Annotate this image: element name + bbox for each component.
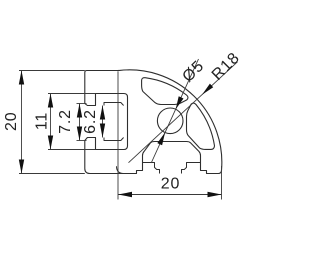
extension line arc right tangent bbox=[221, 166, 223, 200]
R18 arrow pointing down-left, tip at (202,94.7) bbox=[202, 84, 213, 95]
dim line 6.2 bbox=[102, 106, 104, 138]
svg-text:20: 20 bbox=[3, 112, 20, 131]
Ø5 lower arrow pointing up-right into hole, tip at (165.1,132.4) bbox=[157, 132, 165, 145]
svg-text:Ø5: Ø5 bbox=[179, 57, 207, 85]
lower internal pocket bbox=[187, 103, 215, 149]
Ø5 upper arrow pointing down-left into hole, tip at (175.7,109.2) bbox=[176, 96, 184, 109]
left slot ridge bottom bbox=[104, 138, 124, 141]
svg-text:R18: R18 bbox=[209, 49, 243, 83]
extension line slot cavity bottom bbox=[48, 149, 96, 151]
bottom-left inner fillet bbox=[117, 166, 124, 173]
svg-text:7.2: 7.2 bbox=[57, 109, 74, 134]
Ø5 leader bbox=[151, 59, 198, 163]
extension line bottom edge bbox=[19, 173, 85, 175]
center hole bbox=[157, 108, 183, 134]
dim line 20 (left) bbox=[21, 71, 23, 174]
extension line top edge bbox=[19, 70, 85, 72]
dimension graphics bbox=[19, 59, 238, 200]
upper internal pocket bbox=[142, 78, 188, 105]
extension line slot lip top bbox=[77, 103, 87, 105]
bottom slot right retaining tooth bbox=[182, 163, 201, 174]
dim line 11 bbox=[50, 94, 52, 150]
svg-text:11: 11 bbox=[33, 112, 50, 130]
extension line arc left tangent bbox=[117, 71, 119, 199]
svg-text:20: 20 bbox=[161, 175, 180, 192]
dim line 20 (bottom) bbox=[118, 194, 222, 196]
extension line slot cavity top bbox=[48, 93, 96, 95]
dim line 7.2 bbox=[79, 104, 81, 141]
left slot ridge top bbox=[104, 103, 124, 106]
leader arrowheads bbox=[157, 84, 213, 146]
R18 leader bbox=[129, 62, 238, 163]
bottom slot left retaining tooth bbox=[143, 163, 160, 174]
extension line slot lip bottom bbox=[77, 140, 87, 142]
svg-text:6.2: 6.2 bbox=[82, 109, 99, 134]
profile outline bbox=[85, 70, 222, 174]
